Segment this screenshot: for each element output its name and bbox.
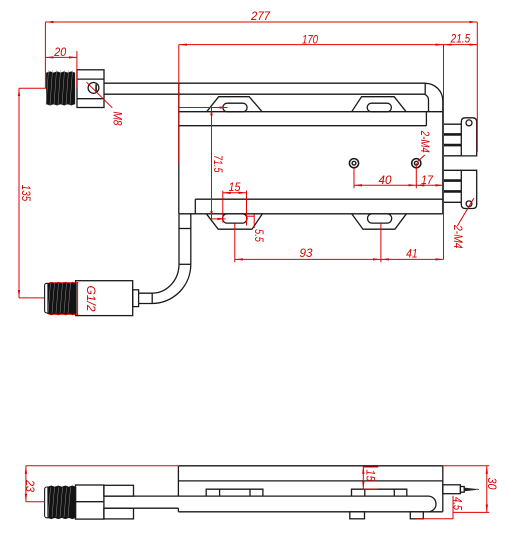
svg-text:M8: M8 bbox=[110, 112, 124, 126]
svg-text:170: 170 bbox=[302, 33, 318, 47]
svg-text:15: 15 bbox=[229, 180, 241, 194]
svg-text:30: 30 bbox=[485, 478, 499, 490]
svg-text:135: 135 bbox=[19, 185, 33, 202]
svg-text:41: 41 bbox=[406, 247, 418, 261]
svg-text:2-M4: 2-M4 bbox=[418, 130, 432, 153]
svg-text:23: 23 bbox=[23, 479, 37, 492]
svg-text:15: 15 bbox=[363, 470, 377, 482]
svg-text:G1/2: G1/2 bbox=[84, 286, 98, 312]
svg-text:21.5: 21.5 bbox=[450, 32, 471, 46]
svg-text:4.5: 4.5 bbox=[451, 497, 465, 510]
svg-text:40: 40 bbox=[379, 173, 392, 187]
svg-text:20: 20 bbox=[53, 45, 66, 59]
svg-text:277: 277 bbox=[250, 9, 271, 23]
svg-text:2-M4: 2-M4 bbox=[451, 224, 465, 249]
svg-text:71.5: 71.5 bbox=[211, 155, 225, 173]
svg-text:17: 17 bbox=[421, 173, 434, 187]
svg-text:5.5: 5.5 bbox=[252, 229, 266, 242]
svg-text:93: 93 bbox=[300, 246, 313, 260]
